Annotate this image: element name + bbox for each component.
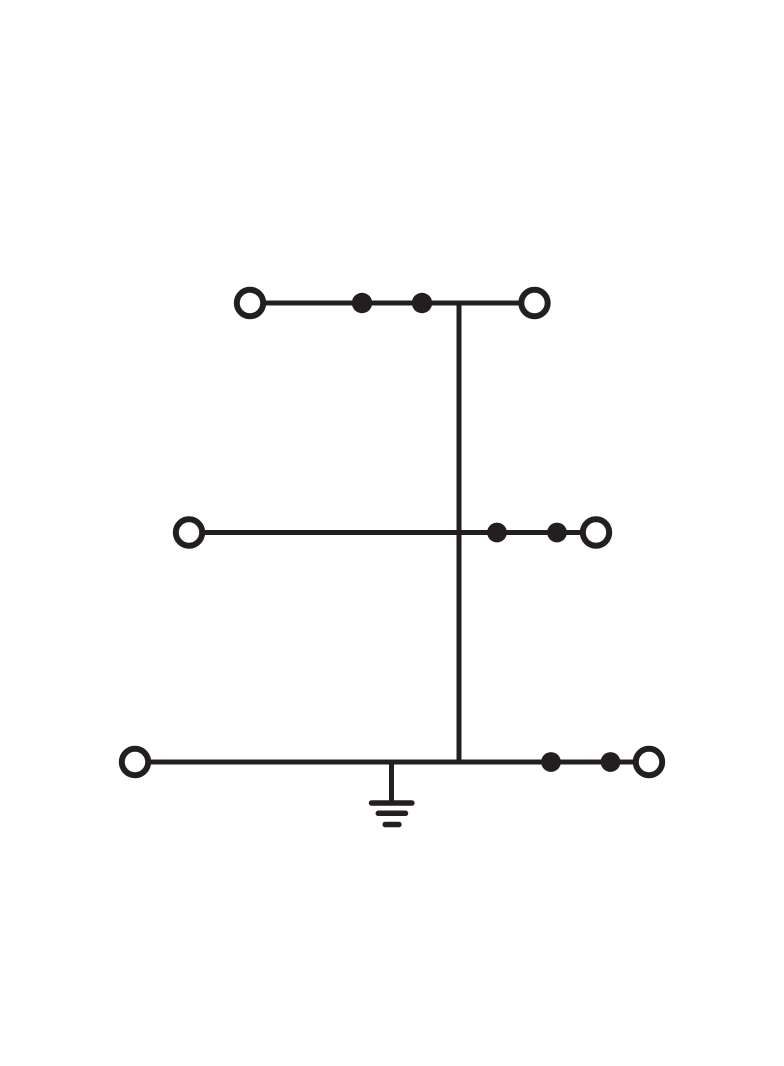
wire: top level (level 1) horizontal conductor bbox=[250, 301, 535, 306]
wire: vertical bus linking all three levels bbox=[457, 301, 462, 763]
terminal: level 3 right clamp point bbox=[636, 749, 662, 775]
terminal: level 2 right clamp point bbox=[583, 519, 609, 545]
ground bbox=[372, 803, 412, 825]
junction: level 2 internal contact dots bbox=[487, 523, 567, 543]
terminal: level 3 left clamp point bbox=[122, 749, 148, 775]
wire: ground stem bbox=[389, 762, 394, 803]
junction: level 3 internal contact dots bbox=[541, 752, 620, 772]
wire: bottom level (level 3) horizontal conductor bbox=[135, 760, 649, 765]
junction: level 1 internal contact dots bbox=[352, 293, 432, 313]
terminal: level 1 right clamp point bbox=[521, 290, 547, 316]
wire: middle level (level 2) horizontal conductor bbox=[189, 530, 596, 535]
terminal: level 1 left clamp point bbox=[237, 290, 263, 316]
terminal: level 2 left clamp point bbox=[176, 519, 202, 545]
